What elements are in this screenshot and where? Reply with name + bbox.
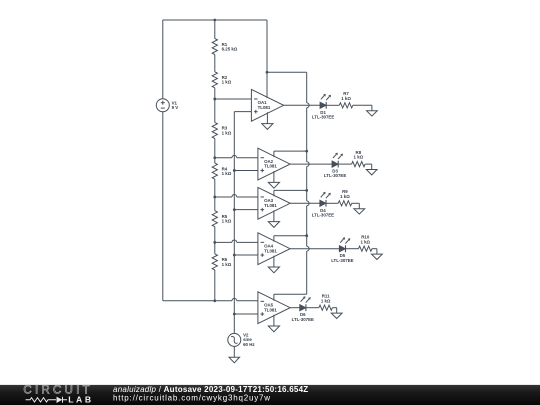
svg-text:1 kΩ: 1 kΩ — [222, 80, 232, 85]
svg-text:TL081: TL081 — [264, 307, 277, 312]
svg-text:6.25 kΩ: 6.25 kΩ — [222, 46, 238, 51]
svg-text:LTL-307EE: LTL-307EE — [312, 114, 334, 119]
svg-text:9 V: 9 V — [172, 105, 179, 110]
svg-text:1 kΩ: 1 kΩ — [321, 298, 331, 303]
svg-text:TL081: TL081 — [258, 105, 271, 110]
svg-text:1 kΩ: 1 kΩ — [360, 239, 370, 244]
svg-text:1 kΩ: 1 kΩ — [222, 130, 232, 135]
svg-text:LAB: LAB — [68, 394, 93, 404]
svg-text:1 kΩ: 1 kΩ — [354, 155, 364, 160]
svg-text:LTL-307EE: LTL-307EE — [324, 173, 346, 178]
svg-text:1 kΩ: 1 kΩ — [341, 96, 351, 101]
svg-text:60 Hz: 60 Hz — [243, 342, 255, 347]
svg-text:TL081: TL081 — [264, 248, 277, 253]
svg-text:1 kΩ: 1 kΩ — [222, 262, 232, 267]
svg-text:LTL-307EE: LTL-307EE — [331, 258, 353, 263]
svg-text:1 kΩ: 1 kΩ — [340, 194, 350, 199]
svg-text:TL081: TL081 — [264, 164, 277, 169]
svg-text:1 kΩ: 1 kΩ — [222, 171, 232, 176]
svg-text:http://circuitlab.com/cwykg3hq: http://circuitlab.com/cwykg3hq2uy7w — [113, 394, 271, 403]
svg-text:TL081: TL081 — [264, 203, 277, 208]
svg-text:LTL-307EE: LTL-307EE — [312, 212, 334, 217]
svg-text:LTL-307EE: LTL-307EE — [292, 317, 314, 322]
svg-text:1 kΩ: 1 kΩ — [222, 219, 232, 224]
